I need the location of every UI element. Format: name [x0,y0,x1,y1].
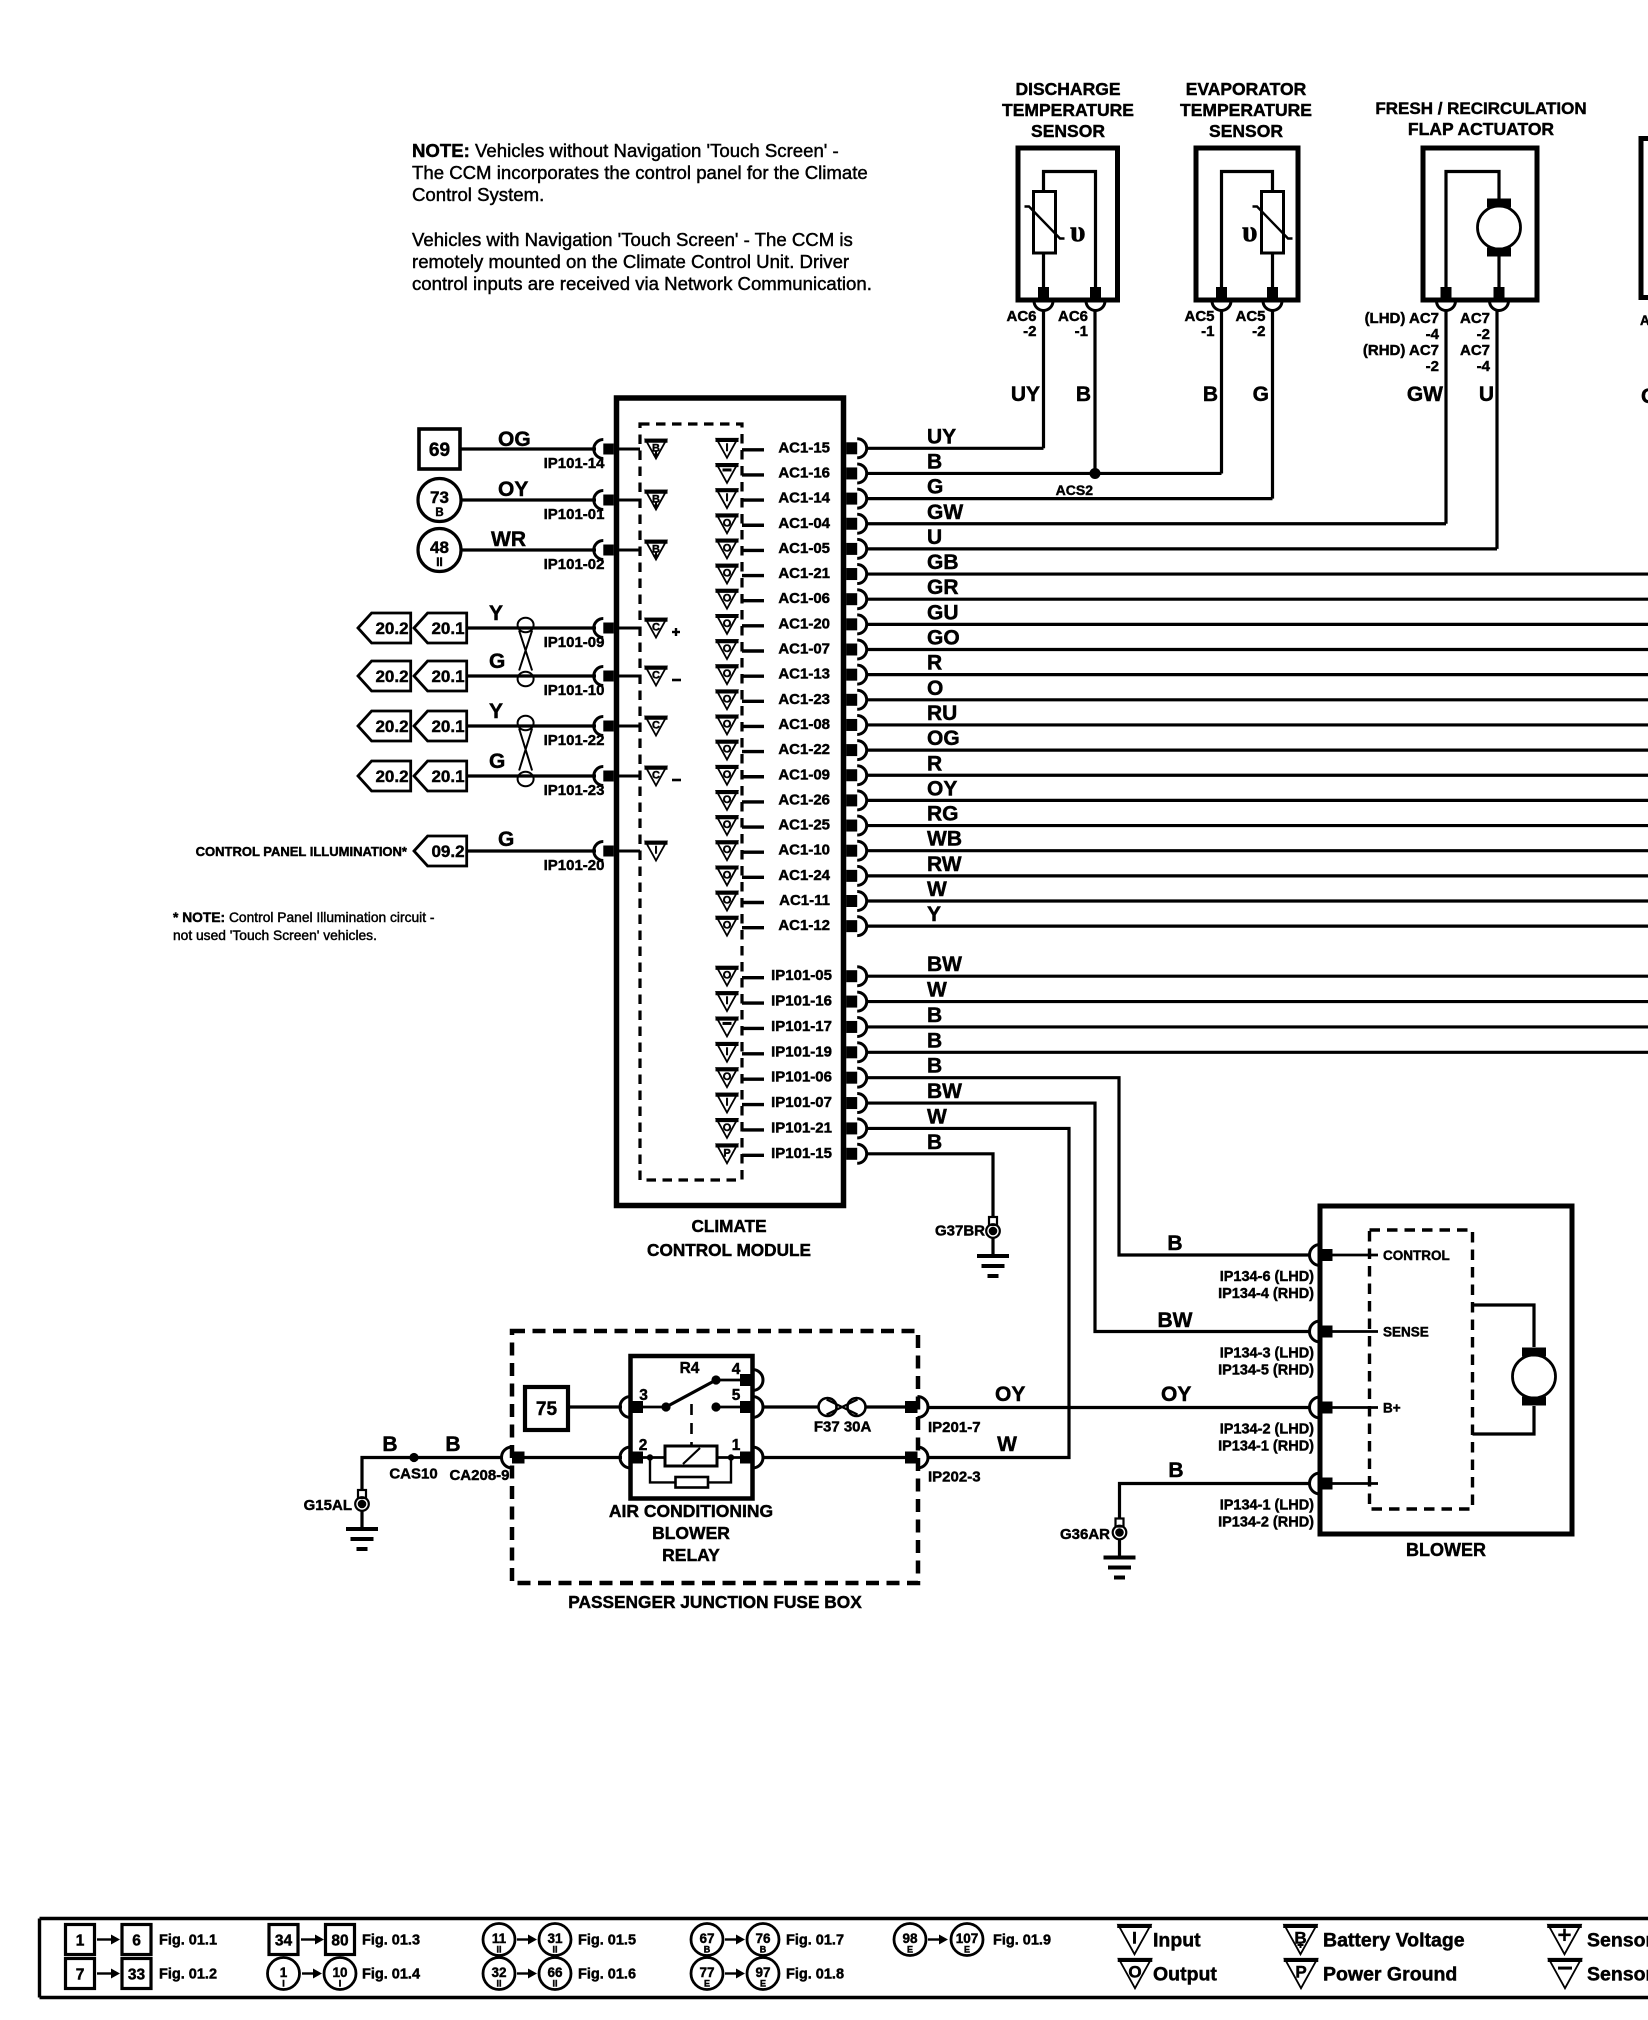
svg-text:CAS10: CAS10 [389,1466,437,1483]
connector circle 73-B [418,479,461,522]
pin AC7 left [1441,287,1452,298]
svg-text:I: I [282,1979,285,1989]
svg-text:GR: GR [927,576,959,599]
svg-text:AC1-15: AC1-15 [778,439,830,456]
svg-text:IP202-3: IP202-3 [928,1469,981,1486]
wire Y from 20.1 to IP101-22 [466,724,596,727]
svg-text:Vehicles with Navigation 'Touc: Vehicles with Navigation 'Touch Screen' … [412,229,853,250]
sensor supply symbol at IP101-09 [645,619,681,638]
IO symbol at AC1-15 [717,439,738,458]
svg-text:O: O [723,1071,732,1083]
pin AC1-11 connector [846,895,857,907]
legend squares 7 to 33 Fig 01.2 [66,1959,218,1989]
pin IP101-21 stub [742,1128,764,1131]
svg-text:W: W [927,878,947,901]
pin AC1-21 connector [846,568,857,580]
svg-text:AC1-05: AC1-05 [778,540,830,557]
svg-text:not used 'Touch Screen' vehicl: not used 'Touch Screen' vehicles. [173,928,377,943]
pin AC1-15 stub [742,448,764,451]
pin AC5-1 [1216,287,1227,298]
blower pin label IP134-3 (LHD) IP134-5 (RHD) [1218,1346,1314,1379]
IO symbol at AC1-16 [717,464,738,483]
note text control panel illumination [173,910,434,943]
pin IP101-15 stub [742,1154,764,1157]
pin IP101-14 connector [594,440,604,459]
svg-text:IP201-7: IP201-7 [928,1419,981,1436]
pin AC1-26 connector [846,794,857,806]
pin AC1-16 connector [846,467,857,479]
evaporator temperature sensor title [1180,79,1312,141]
wire B IP101-06 to blower CONTROL [866,1078,1311,1255]
blower motor M [1513,1355,1556,1398]
battery voltage symbol at IP101-01 [646,491,667,510]
svg-text:II: II [552,1945,557,1955]
pin AC7 right [1494,287,1505,298]
pin AC1-08 connector [846,719,857,731]
svg-text:AC1-16: AC1-16 [778,464,830,481]
climate control module box U1 [617,398,844,1206]
pin IP101-09 stub [617,627,641,630]
wire W IP101-21 to IP202-3 [866,1128,1069,1457]
off-page arrow 20.1 at IP101-09 [414,613,467,643]
svg-text:O: O [723,869,732,881]
pin IP101-09 connector [594,619,604,638]
blower pin label IP134-2 (LHD) IP134-1 (RHD) [1218,1422,1314,1455]
svg-text:OY: OY [927,777,957,800]
pin label AC7 right LHD RHD [1460,310,1491,375]
svg-text:Control System.: Control System. [412,184,544,205]
svg-text:RW: RW [927,853,962,876]
pin IP101-19 connector [846,1046,857,1058]
svg-text:υ: υ [1242,215,1258,248]
connector square 75 [525,1387,568,1430]
svg-text:GW: GW [927,501,963,524]
pin IP101-20 stub [617,850,641,853]
svg-text:20.1: 20.1 [431,667,464,686]
svg-text:B: B [760,1945,767,1955]
connector IP202-3 [918,1447,929,1468]
svg-text:Fig. 01.6: Fig. 01.6 [578,1967,636,1983]
svg-text:IP101-21: IP101-21 [771,1119,832,1136]
svg-text:Fig. 01.4: Fig. 01.4 [362,1967,420,1983]
svg-text:7: 7 [76,1967,85,1984]
wire OG AC1-22 to right edge [866,748,1648,751]
svg-text:AC1-04: AC1-04 [778,515,830,532]
svg-text:AC1-11: AC1-11 [779,892,830,909]
wire OY AC1-26 to right edge [866,799,1648,802]
blower inner dashed box [1370,1230,1473,1509]
off-page arrow 20.2 at IP101-22 [358,711,411,741]
svg-text:TEMPERATURE: TEMPERATURE [1002,100,1134,120]
off-page arrow 20.2 at IP101-23 [358,761,411,791]
svg-text:I: I [654,845,657,857]
relay coil [665,1446,717,1466]
svg-text:II: II [436,557,442,569]
wire relay pin 5 to fuse F37 [762,1405,819,1408]
svg-text:O: O [723,895,732,907]
relay actuation dashed link [690,1404,693,1445]
blower pin SENSE connector [1310,1321,1321,1342]
pin AC1-12 connector [846,920,857,932]
pin IP101-01 connector [594,491,604,510]
wire RW AC1-24 to right edge [866,874,1648,877]
pin AC1-25 stub [742,825,764,828]
svg-text:O: O [723,693,732,705]
connector IP201-7 [918,1397,929,1418]
svg-text:75: 75 [536,1399,558,1420]
junction ACS2 [1090,468,1101,479]
svg-text:U: U [1479,383,1494,406]
pin AC1-23 connector [846,694,857,706]
svg-text:B: B [927,1004,942,1027]
sensor supply symbol at IP101-10 [645,667,682,686]
svg-text:IP101-01: IP101-01 [544,506,605,523]
pin AC1-24 connector [846,870,857,882]
svg-text:O: O [723,920,732,932]
svg-text:I: I [725,442,728,454]
passenger junction fuse box dashed [512,1331,918,1583]
svg-text:I: I [725,492,728,504]
svg-text:B: B [1168,1459,1183,1482]
discharge sensor internal wire [1042,252,1045,299]
pin AC1-20 connector [846,618,857,630]
blower pin label IP134-1 (LHD) IP134-2 (RHD) [1218,1498,1314,1531]
pin AC1-10 connector [846,845,857,857]
IO symbol at IP101-05 [717,967,738,986]
svg-text:O: O [723,668,732,680]
wire R AC1-13 to right edge [866,673,1648,676]
svg-text:IP101-19: IP101-19 [771,1043,832,1060]
relay pin 3 connector [620,1397,631,1418]
wire 75 to relay pin 3 [568,1405,622,1408]
legend input symbol [1117,1925,1201,1954]
blower box [1320,1206,1572,1534]
pin IP101-16 stub [742,1001,764,1004]
IO symbol at AC1-13 [717,665,738,684]
off-page arrow 20.1 at IP101-23 [414,761,467,791]
wire B IP101-17 to right edge [866,1025,1648,1028]
svg-text:Input: Input [1153,1930,1201,1952]
pin IP101-15 connector [846,1148,857,1160]
IO symbol at AC1-06 [717,590,738,609]
svg-text:AC1-20: AC1-20 [778,615,830,632]
pin IP101-02 connector [594,541,604,560]
svg-text:B: B [927,450,942,473]
svg-text:O: O [723,643,732,655]
svg-text:R: R [927,652,942,675]
svg-text:34: 34 [275,1933,293,1950]
svg-text:BW: BW [927,953,962,976]
wire B IP101-19 to right edge [866,1051,1648,1054]
svg-text:09.2: 09.2 [431,842,464,861]
svg-text:ACS2: ACS2 [1056,482,1094,498]
svg-text:B: B [927,1029,942,1052]
svg-text:G36AR: G36AR [1060,1526,1110,1543]
legend circles 11 to 31 Fig 01.5 [483,1924,636,1956]
svg-text:G: G [498,828,514,851]
svg-text:4: 4 [732,1361,741,1378]
svg-text:A: A [1640,313,1648,328]
pin AC1-04 stub [742,524,764,527]
svg-text:5: 5 [732,1387,741,1404]
blower motor wires [1473,1305,1535,1347]
svg-text:C: C [652,622,660,634]
svg-text:20.2: 20.2 [375,619,408,638]
svg-text:I: I [339,1979,342,1989]
svg-text:EVAPORATOR: EVAPORATOR [1186,79,1307,99]
svg-text:WB: WB [927,828,962,851]
svg-text:Y: Y [927,903,941,926]
ground G15AL [358,1490,366,1498]
pin IP101-19 stub [742,1052,764,1055]
IO symbol at AC1-22 [717,741,738,760]
IO symbol at AC1-20 [717,615,738,634]
IO symbol at AC1-10 [717,841,738,860]
pin AC1-25 connector [846,820,857,832]
svg-text:IP101-20: IP101-20 [544,857,605,874]
svg-text:20.1: 20.1 [431,619,464,638]
connector square 69 [419,429,460,469]
relay pin 2 connector [620,1447,631,1468]
wire U AC1-05 to actuator [866,547,1497,550]
svg-text:O: O [723,718,732,730]
svg-text:SENSOR: SENSOR [1209,121,1283,141]
relay contact dot pin 5 [711,1402,720,1411]
svg-text:IP101-23: IP101-23 [544,782,605,799]
blower pin ground connector [1310,1473,1321,1494]
wire G from 20.1 to IP101-10 [466,674,596,677]
svg-text:υ: υ [1070,215,1086,248]
svg-text:AC1-22: AC1-22 [778,741,830,758]
svg-text:-4: -4 [1477,358,1491,375]
svg-text:AC1-14: AC1-14 [778,490,830,507]
svg-text:IP134-5 (RHD): IP134-5 (RHD) [1218,1363,1314,1379]
pin AC1-09 connector [846,769,857,781]
relay pin 5 stub [716,1406,742,1409]
svg-text:IP134-1 (RHD): IP134-1 (RHD) [1218,1439,1314,1455]
IO symbol at AC1-23 [717,690,738,709]
pin AC1-13 connector [846,669,857,681]
legend sensor plus symbol [1547,1925,1648,1954]
svg-text:IP101-09: IP101-09 [544,634,605,651]
svg-text:20.2: 20.2 [375,767,408,786]
wire BW IP101-05 to right edge [866,975,1648,978]
pin IP101-10 connector [594,667,604,686]
svg-text:G: G [1253,383,1269,406]
svg-text:AC1-09: AC1-09 [778,766,830,783]
relay pin 4 stub [716,1379,742,1382]
wire UY AC1-15 to sensor [866,447,1043,450]
battery voltage symbol at IP101-02 [646,541,667,560]
air conditioning blower relay label [609,1501,773,1565]
svg-text:O: O [723,542,732,554]
pin label AC5-1 [1184,308,1214,340]
pin AC1-06 stub [742,599,764,602]
relay contact dot pin 4 [711,1375,720,1384]
svg-text:O: O [723,593,732,605]
svg-text:-4: -4 [1426,326,1440,343]
relay pin 4 connector [753,1370,764,1391]
input symbol at IP101-20 [646,842,667,861]
svg-text:Fig. 01.8: Fig. 01.8 [786,1967,844,1983]
relay contact dot pin 3 [661,1402,670,1411]
legend sensor minus symbol [1548,1959,1648,1988]
wire B vertical from AC6-1 [1093,309,1096,473]
wire RU AC1-08 to right edge [866,723,1648,726]
svg-text:O: O [723,769,732,781]
pin AC1-06 connector [846,593,857,605]
svg-text:20.1: 20.1 [431,717,464,736]
svg-text:AC1-25: AC1-25 [778,817,830,834]
IO symbol at IP101-15 [717,1144,738,1163]
pin label AC7 left LHD RHD [1363,310,1440,375]
legend circles 1 to 10 Fig 01.4 [268,1958,421,1990]
svg-text:WR: WR [491,528,526,551]
ground G37BR [989,1217,997,1225]
twisted pair symbol IP101-09 IP101-10 [518,618,534,633]
svg-text:G: G [1641,385,1648,408]
pin AC1-26 stub [742,800,764,803]
pin AC1-24 stub [742,876,764,879]
svg-text:-2: -2 [1252,323,1265,340]
IO symbol at AC1-08 [717,715,738,734]
pin label AC5-2 [1235,308,1265,340]
battery voltage symbol at IP101-14 [646,440,667,459]
legend circles 77 to 97 Fig 01.8 [691,1958,844,1990]
wire U vertical from AC7 [1495,309,1498,549]
svg-text:I: I [725,995,728,1007]
svg-text:CONTROL PANEL ILLUMINATION*: CONTROL PANEL ILLUMINATION* [196,844,408,859]
pin IP101-14 stub [617,448,641,451]
pin IP101-10 stub [617,675,641,678]
svg-text:* NOTE: Control Panel Illumina: * NOTE: Control Panel Illumination circu… [173,910,434,925]
wire WB AC1-10 to right edge [866,849,1648,852]
wire G from 09.2 to IP101-20 [466,849,596,852]
svg-text:G15AL: G15AL [304,1497,352,1514]
svg-text:RU: RU [927,702,957,725]
svg-text:CONTROL MODULE: CONTROL MODULE [647,1240,811,1260]
svg-text:Power Ground: Power Ground [1323,1964,1457,1986]
svg-text:(LHD) AC7: (LHD) AC7 [1365,310,1439,327]
wire O AC1-23 to right edge [866,698,1648,701]
svg-text:GB: GB [927,551,959,574]
svg-text:IP134-3 (LHD): IP134-3 (LHD) [1220,1346,1314,1362]
wire CA208-9 to relay pin 2 [523,1456,622,1459]
blower pin stub CONTROL [1331,1254,1378,1257]
note text block top [412,140,872,294]
thermistor discharge sensor [1025,192,1065,254]
wire B blower to ground G36AR [1120,1484,1312,1519]
legend battery voltage symbol [1283,1925,1465,1954]
svg-text:Sensor: Sensor [1587,1964,1648,1986]
svg-text:IP101-07: IP101-07 [771,1094,832,1111]
IO symbol at AC1-07 [717,640,738,659]
connector CA208-9 [502,1447,513,1468]
svg-text:OY: OY [995,1383,1025,1406]
pin AC1-22 connector [846,744,857,756]
off-page arrow 20.1 at IP101-22 [414,711,467,741]
svg-text:IP101-02: IP101-02 [544,556,605,573]
svg-text:SENSE: SENSE [1383,1325,1429,1340]
flap actuator box [1423,148,1537,300]
svg-text:CLIMATE: CLIMATE [691,1216,766,1236]
IO symbol at IP101-17 [717,1017,738,1036]
svg-text:E: E [964,1945,970,1955]
IO symbol at IP101-06 [717,1068,738,1087]
svg-text:B: B [445,1433,460,1456]
svg-text:AC1-26: AC1-26 [778,791,830,808]
climate control module inner dashed box [640,424,742,1180]
svg-text:G: G [489,750,505,773]
pin IP101-07 connector [846,1097,857,1109]
svg-text:B: B [704,1945,711,1955]
IO symbol at AC1-09 [717,766,738,785]
pin AC1-08 stub [742,725,764,728]
svg-text:AC1-07: AC1-07 [778,641,830,658]
twisted pair symbol IP101-22 IP101-23 [518,716,534,731]
svg-text:IP134-2 (LHD): IP134-2 (LHD) [1220,1422,1314,1438]
svg-text:O: O [927,677,943,700]
relay pin 2 stub [642,1456,666,1459]
svg-text:Fig. 01.1: Fig. 01.1 [159,1933,217,1949]
wire fuse to IP201-7 [866,1405,906,1408]
svg-text:Fig. 01.9: Fig. 01.9 [993,1933,1051,1949]
svg-text:AIR CONDITIONING: AIR CONDITIONING [609,1501,773,1521]
svg-text:1: 1 [76,1933,85,1950]
connector circle 48-II [418,529,461,572]
pin IP101-06 connector [846,1072,857,1084]
relay pin 1 stub [717,1456,742,1459]
svg-text:3: 3 [639,1387,648,1404]
off-page arrow 09.2 [414,836,467,866]
svg-text:73: 73 [430,488,449,507]
wire R AC1-09 to right edge [866,774,1648,777]
pin IP101-16 connector [846,996,857,1008]
svg-text:IP101-14: IP101-14 [544,455,606,472]
svg-text:-2: -2 [1023,323,1036,340]
wire Y AC1-12 to right edge [866,925,1648,928]
pin label AC6-1 [1058,308,1088,340]
svg-text:20.2: 20.2 [375,717,408,736]
blower pin stub B+ [1331,1406,1378,1409]
wire GB AC1-21 to right edge [866,572,1648,575]
IO symbol at AC1-04 [717,514,738,533]
wire B IP101-15 to ground G37BR [866,1154,993,1217]
wire OG from 69 to IP101-14 [460,447,596,450]
pin IP101-02 stub [617,549,641,552]
relay pin 5 connector [753,1397,764,1418]
svg-text:GO: GO [927,627,960,650]
svg-text:SENSOR: SENSOR [1031,121,1105,141]
pin IP101-01 stub [617,499,641,502]
IO symbol at AC1-26 [717,791,738,810]
svg-text:Fig. 01.3: Fig. 01.3 [362,1933,420,1949]
svg-text:B: B [927,1055,942,1078]
pin AC1-11 stub [742,901,764,904]
pin AC1-05 stub [742,549,764,552]
svg-text:B: B [435,507,443,519]
flap actuator internal wire [1446,172,1499,300]
blower pin B+ connector [1310,1397,1321,1418]
svg-text:DISCHARGE: DISCHARGE [1015,79,1120,99]
junction CAS10 [409,1453,418,1462]
svg-text:AC1-24: AC1-24 [778,867,830,884]
svg-text:Fig. 01.5: Fig. 01.5 [578,1933,636,1949]
svg-text:AC7: AC7 [1460,342,1490,359]
pin IP101-17 connector [846,1021,857,1033]
wire RG AC1-25 to right edge [866,824,1648,827]
blower pin stub SENSE [1331,1330,1378,1333]
